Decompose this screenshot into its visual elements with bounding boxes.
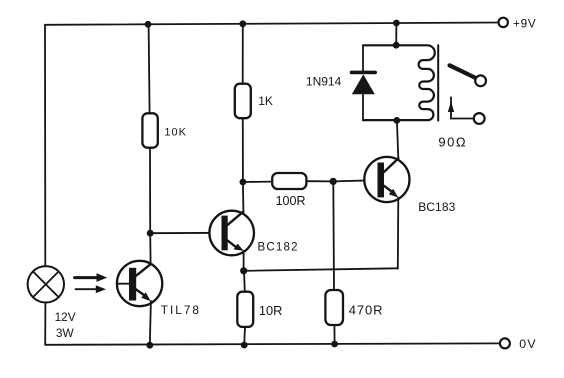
wire left rail down to lamp [44,25,46,267]
svg-text:470R: 470R [349,302,384,317]
node 1K / BC182 collector / 100R [240,179,247,186]
svg-text:1N914: 1N914 [306,75,342,89]
wire BC182 emitter down [243,251,245,271]
wire top supply rail [45,23,498,25]
wire common emitter rail [244,268,398,271]
node 470R on 0V rail [331,341,338,348]
svg-text:90Ω: 90Ω [438,135,467,150]
wire 10R bottom lead [243,327,246,345]
svg-text:12V: 12V [55,310,76,324]
transistor Q BC182 [209,211,254,256]
wire TIL78 collector up to node [149,233,151,264]
wire 10K top lead [149,24,150,113]
node top rail / relay [393,20,400,27]
wire lamp bottom to 0V rail [44,302,46,344]
svg-text:TIL78: TIL78 [161,303,201,317]
wire 1K top lead [242,24,244,84]
svg-text:100R: 100R [276,194,306,208]
svg-text:BC183: BC183 [418,200,455,214]
node 10R on 0V rail [241,342,248,349]
terminal +9V [499,18,508,27]
node 100R / 470R / BC183 base [330,178,337,185]
node relay bottom [393,117,400,124]
svg-text:+9V: +9V [513,18,537,31]
wire BC182 base [150,232,221,234]
wire 1K bottom lead [242,118,244,182]
switch contact blade [450,65,477,78]
wire 470R top lead [332,181,335,290]
node relay top [393,42,400,49]
switch actuation arrow [448,97,454,114]
transistor Q BC183 [364,157,409,202]
light arrow upper [75,273,108,282]
svg-text:1K: 1K [258,94,273,108]
terminal 0V [500,338,510,348]
relay coil 90R [363,45,438,120]
wire switch lower contact lead [451,115,474,119]
wire BC183 emitter down [397,198,400,269]
switch upper contact [475,75,486,86]
wire BC183 base [333,180,377,181]
svg-text:10R: 10R [259,303,282,318]
wire bottom 0V rail [45,343,500,344]
resistor R 1K [235,84,251,119]
wire BC183 collector up to relay [397,121,398,159]
svg-text:3W: 3W [56,326,75,340]
node top of 10K column [145,21,152,28]
resistor R 10K [142,113,157,147]
resistor R 100R [243,173,333,189]
node emitter junction [240,267,247,274]
node 10K / TIL78 collector / BC182 base [147,230,154,237]
node TIL78 emitter on 0V rail [146,342,153,349]
resistor R 10R [237,292,253,327]
wire 10R top lead [243,271,246,292]
wire rail to relay top [395,23,397,45]
wire 10K bottom lead to node [149,148,151,234]
svg-text:BC182: BC182 [258,242,299,254]
phototransistor Q TIL78 [117,261,163,306]
diode D 1N914 [352,45,376,120]
resistor R 470R [325,290,343,325]
lamp 12V 3W [28,266,64,302]
switch lower contact [474,113,485,124]
wire TIL78 emitter down to 0V rail [150,301,151,345]
node top of 1K column [239,20,246,27]
wire BC182 collector [242,182,245,212]
svg-text:10K: 10K [164,126,187,138]
wire 470R bottom lead [333,325,335,344]
light arrow lower [76,285,107,293]
svg-text:0V: 0V [519,337,537,351]
